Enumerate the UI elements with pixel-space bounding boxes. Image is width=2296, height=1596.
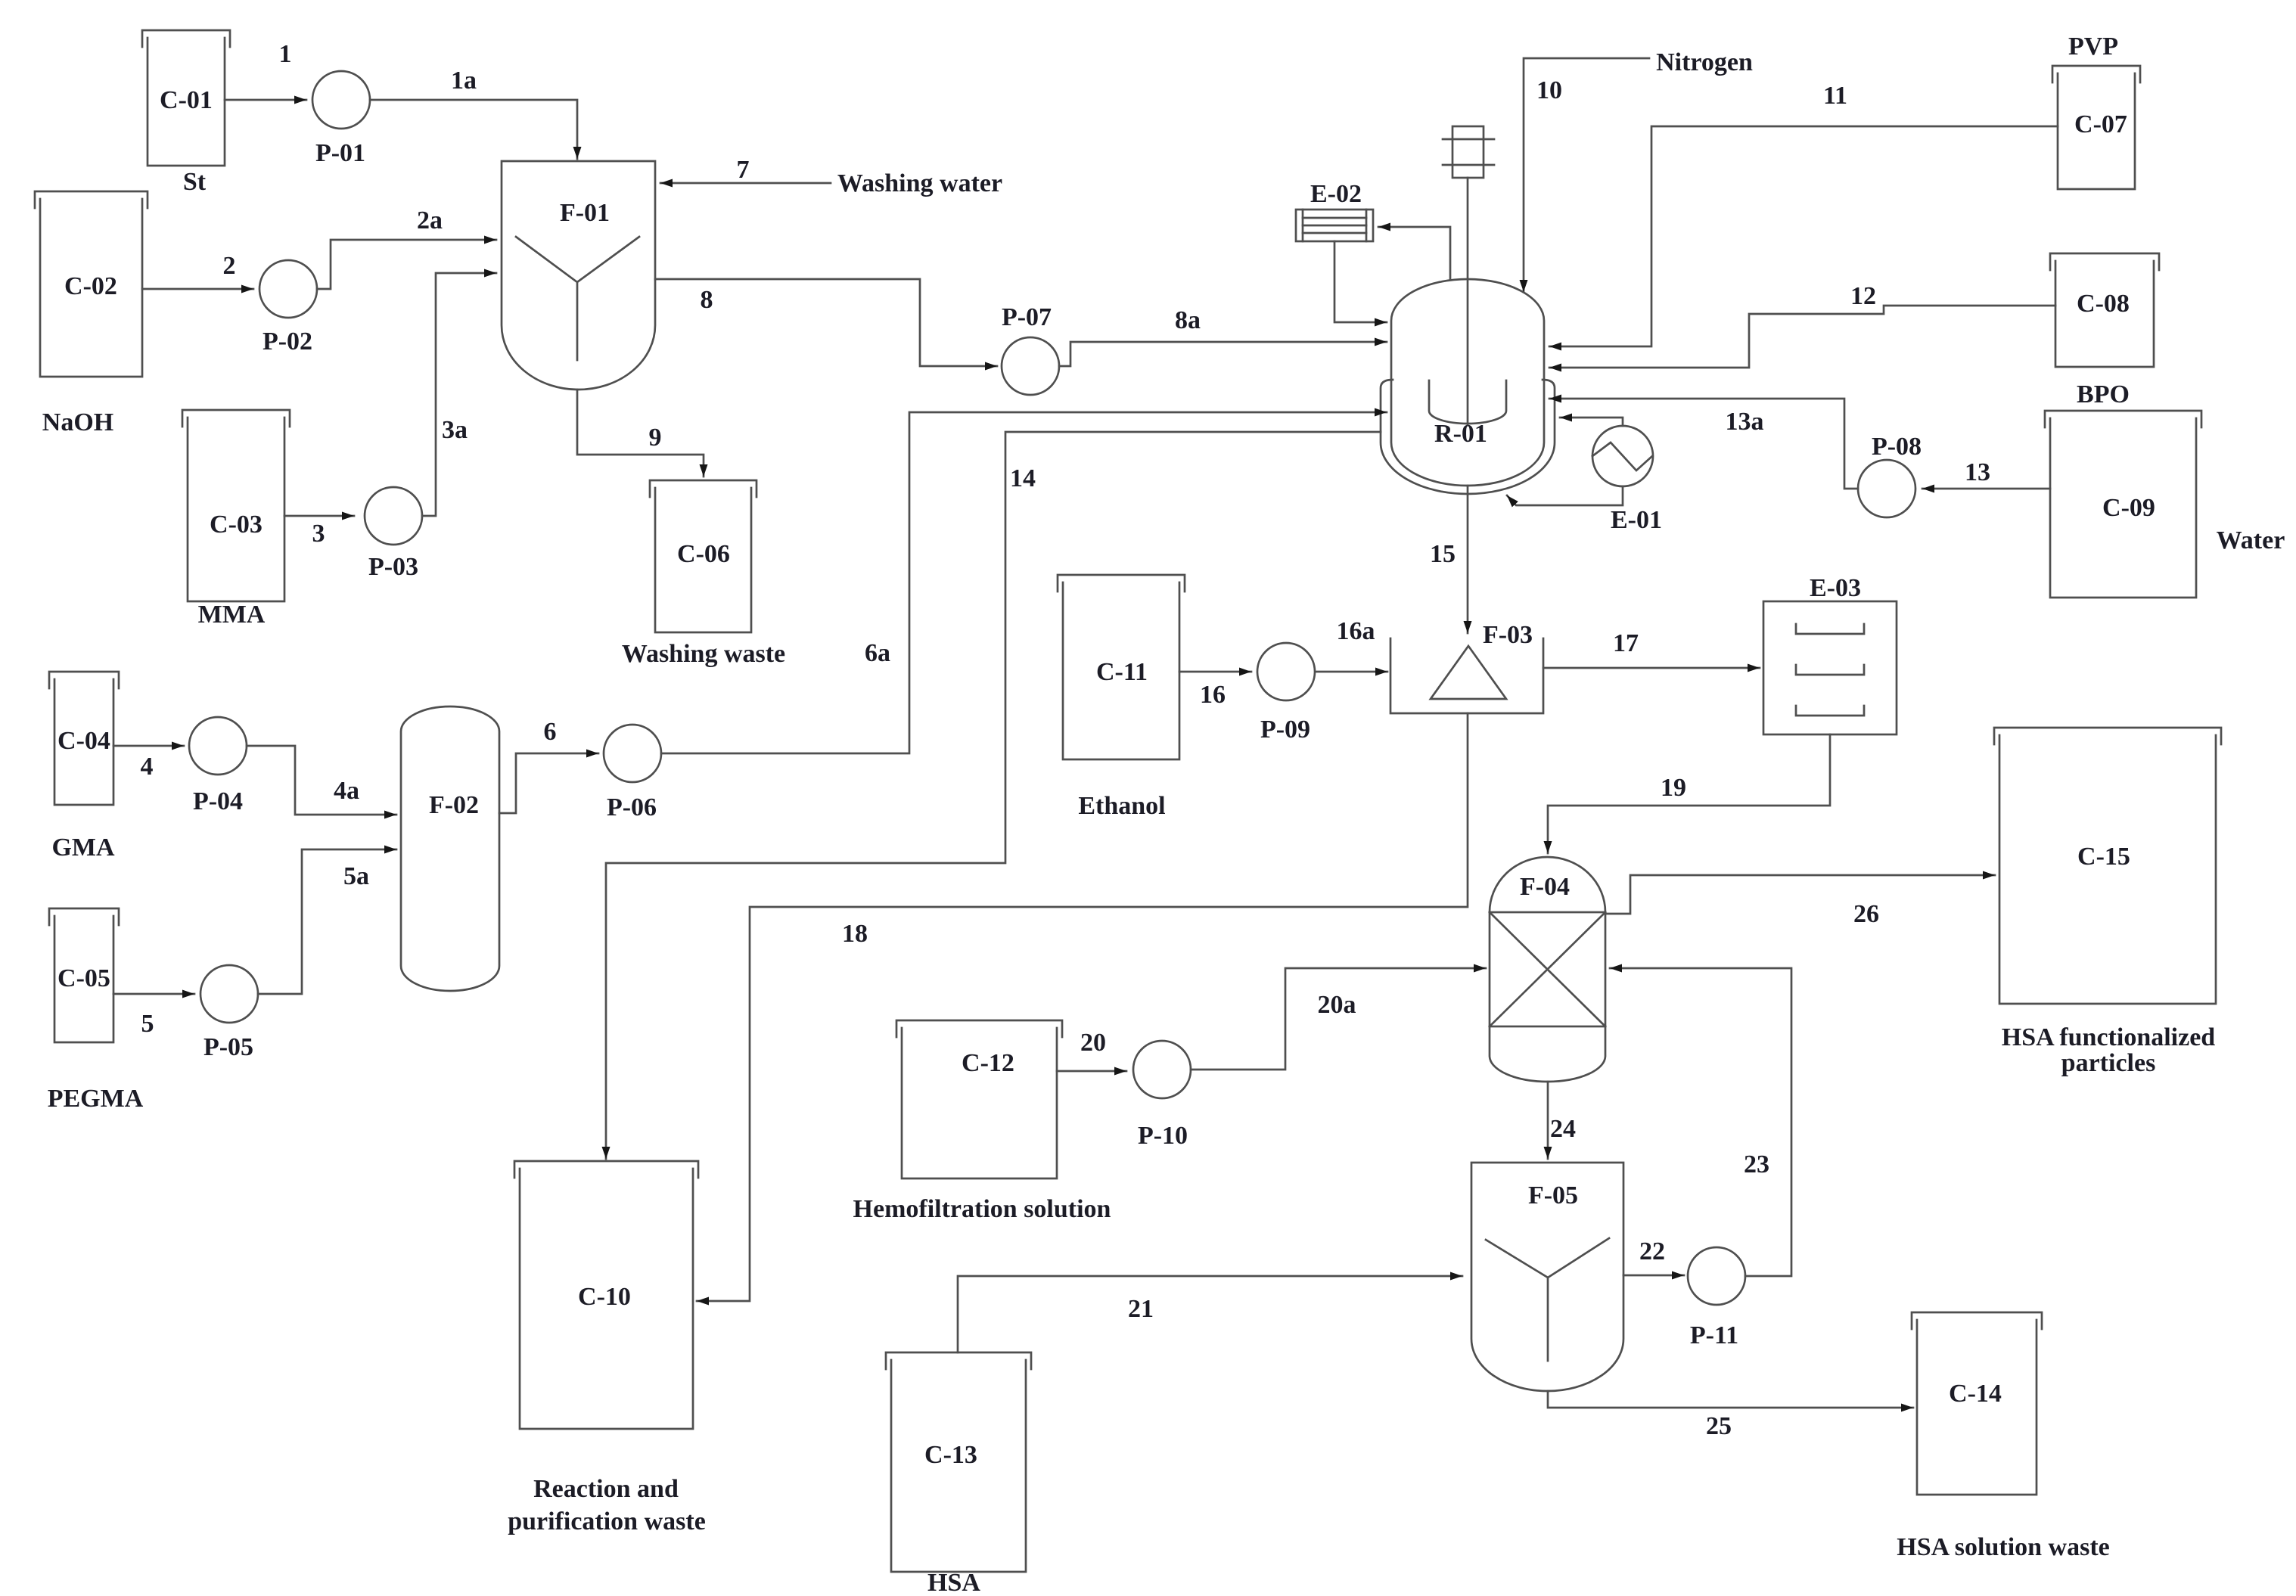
tank C-13 (886, 1352, 1031, 1572)
svg-text:6a: 6a (865, 639, 890, 667)
wire stream 16a (1316, 617, 1387, 672)
wire stream 21 (958, 1276, 1462, 1352)
svg-text:C-03: C-03 (210, 511, 263, 539)
wire stream 25 (1548, 1391, 1913, 1440)
svg-text:E-01: E-01 (1611, 506, 1662, 534)
vessel F-03 (1390, 621, 1543, 713)
svg-text:Nitrogen: Nitrogen (1656, 48, 1753, 76)
reactor R-01 shaft (1467, 178, 1469, 424)
svg-text:Hemofiltration solution: Hemofiltration solution (853, 1195, 1111, 1223)
svg-text:C-11: C-11 (1096, 658, 1148, 686)
svg-text:C-04: C-04 (57, 727, 110, 755)
tank C-11 (1058, 575, 1185, 759)
wire stream 20a (1191, 968, 1486, 1070)
svg-text:1: 1 (279, 40, 292, 68)
label PVP (2068, 33, 2118, 61)
tank C-08 (2050, 253, 2159, 367)
svg-text:12: 12 (1850, 282, 1876, 310)
svg-text:F-03: F-03 (1483, 621, 1533, 649)
svg-text:P-09: P-09 (1260, 716, 1310, 744)
svg-text:1a: 1a (451, 67, 477, 95)
wire E-01 return line (1507, 486, 1623, 505)
svg-text:HSA: HSA (927, 1569, 980, 1596)
svg-text:P-02: P-02 (263, 328, 312, 356)
svg-text:P-08: P-08 (1872, 433, 1922, 461)
reactor R-01 shell (1391, 279, 1544, 486)
svg-text:15: 15 (1430, 540, 1456, 568)
pump P-05 (200, 965, 258, 1061)
tank C-09 (2045, 411, 2201, 598)
wire E-02 vapor line (1378, 227, 1450, 280)
svg-text:23: 23 (1744, 1150, 1769, 1178)
label GMA (51, 834, 115, 862)
wire stream 23 (1610, 968, 1791, 1276)
pump P-08 (1858, 433, 1922, 517)
svg-text:P-05: P-05 (204, 1033, 253, 1061)
label Reaction and purification waste (508, 1475, 706, 1535)
label HSA functionalized particles (2002, 1023, 2216, 1077)
svg-text:5: 5 (141, 1010, 154, 1038)
svg-text:8a: 8a (1175, 306, 1201, 334)
pump P-04 (189, 717, 247, 815)
wire stream 26 (1605, 875, 1995, 928)
svg-text:18: 18 (842, 920, 868, 948)
wire stream 22 (1623, 1237, 1684, 1275)
wire stream 15 (1430, 486, 1468, 633)
svg-text:19: 19 (1661, 774, 1686, 802)
svg-text:17: 17 (1613, 629, 1639, 657)
wire stream 1 (225, 40, 306, 100)
wire stream 20 (1057, 1029, 1126, 1071)
svg-text:purification waste: purification waste (508, 1508, 706, 1535)
wire E-01 supply line (1560, 418, 1623, 426)
svg-text:20a: 20a (1318, 991, 1356, 1019)
tank C-10 (514, 1161, 698, 1429)
svg-text:22: 22 (1639, 1237, 1665, 1265)
svg-text:C-06: C-06 (677, 540, 730, 568)
svg-text:24: 24 (1550, 1115, 1576, 1143)
svg-text:C-14: C-14 (1949, 1380, 2002, 1408)
wire stream 24 (1548, 1082, 1576, 1159)
svg-text:PVP: PVP (2068, 33, 2118, 61)
svg-text:F-02: F-02 (429, 791, 479, 819)
wire stream 2 (142, 252, 253, 289)
wire stream 16 (1179, 672, 1251, 709)
wire stream 5 (113, 994, 194, 1038)
tank C-12 (896, 1020, 1062, 1178)
svg-text:21: 21 (1128, 1295, 1154, 1323)
tank C-03 (182, 410, 290, 601)
svg-text:MMA: MMA (198, 601, 266, 629)
label BPO (2077, 380, 2130, 408)
svg-text:BPO: BPO (2077, 380, 2130, 408)
svg-text:9: 9 (649, 424, 662, 452)
svg-text:GMA: GMA (51, 834, 115, 862)
wire stream 8a (1059, 306, 1387, 366)
pump P-09 (1257, 643, 1315, 744)
reactor R-01 agitator motor (1443, 126, 1494, 178)
svg-text:16a: 16a (1337, 617, 1375, 645)
svg-text:13: 13 (1965, 458, 1990, 486)
pump P-11 (1688, 1247, 1745, 1349)
label MMA (198, 601, 266, 629)
wire stream 11 (1549, 82, 2058, 346)
svg-text:7: 7 (737, 156, 750, 184)
svg-text:P-10: P-10 (1138, 1122, 1188, 1150)
svg-text:C-01: C-01 (160, 86, 213, 114)
svg-text:Washing water: Washing water (837, 169, 1002, 197)
svg-text:6: 6 (544, 718, 557, 746)
svg-text:P-01: P-01 (315, 139, 365, 167)
svg-text:C-10: C-10 (578, 1283, 631, 1311)
wire E-02 return line (1334, 241, 1387, 322)
label NaOH (42, 408, 113, 436)
svg-text:16: 16 (1200, 681, 1226, 709)
vessel F-02 (401, 706, 499, 991)
wire stream 4a (247, 746, 396, 815)
svg-text:F-05: F-05 (1528, 1181, 1578, 1209)
svg-text:C-02: C-02 (64, 272, 117, 300)
wire stream 3a (422, 273, 496, 516)
wire stream 13 (1922, 458, 2050, 489)
vessel F-05 (1471, 1163, 1623, 1391)
wire stream 7 (660, 156, 831, 184)
tank C-05 (49, 908, 119, 1042)
wire stream 6 (499, 718, 598, 813)
svg-text:3: 3 (312, 520, 325, 548)
pump P-06 (604, 725, 661, 821)
svg-text:Washing waste: Washing waste (622, 640, 785, 668)
svg-text:C-07: C-07 (2074, 110, 2127, 138)
tank C-06 (650, 480, 757, 632)
svg-text:5a: 5a (343, 862, 369, 890)
pump P-03 (365, 487, 422, 581)
svg-text:Ethanol: Ethanol (1078, 792, 1165, 820)
vessel F-04 (1490, 857, 1605, 1082)
wire stream 5a (258, 849, 396, 994)
svg-text:PEGMA: PEGMA (48, 1085, 144, 1113)
tank C-02 (35, 191, 148, 377)
svg-text:13a: 13a (1726, 408, 1764, 436)
wire stream 6a (661, 412, 1387, 753)
svg-text:P-07: P-07 (1002, 303, 1052, 331)
wire stream 2a (317, 206, 496, 289)
wire stream 9 (577, 390, 704, 477)
svg-text:Reaction and: Reaction and (533, 1475, 679, 1503)
svg-text:11: 11 (1823, 82, 1847, 110)
svg-text:C-15: C-15 (2077, 843, 2130, 871)
label Water (2217, 526, 2285, 554)
wire stream 10 (1524, 58, 1649, 292)
tank C-04 (49, 672, 119, 805)
label Washing waste (622, 640, 785, 668)
svg-text:26: 26 (1853, 900, 1879, 928)
svg-text:C-12: C-12 (962, 1049, 1014, 1077)
svg-text:P-06: P-06 (607, 793, 657, 821)
svg-text:HSA functionalized: HSA functionalized (2002, 1023, 2216, 1051)
svg-text:8: 8 (701, 286, 713, 314)
wire stream 3 (284, 516, 354, 548)
pump P-07 (1002, 303, 1059, 395)
svg-text:F-01: F-01 (560, 199, 610, 227)
wire stream 8 (655, 279, 997, 366)
wire stream 19 (1548, 734, 1830, 853)
svg-text:Water: Water (2217, 526, 2285, 554)
svg-text:P-04: P-04 (193, 787, 243, 815)
label Washing water (837, 169, 1002, 197)
svg-text:C-13: C-13 (924, 1441, 977, 1469)
svg-text:2: 2 (223, 252, 236, 280)
svg-text:NaOH: NaOH (42, 408, 113, 436)
pump P-02 (259, 260, 317, 356)
dryer E-03 (1763, 574, 1897, 734)
svg-text:C-08: C-08 (2077, 290, 2130, 318)
svg-text:P-11: P-11 (1690, 1321, 1738, 1349)
tank C-14 (1912, 1312, 2042, 1495)
svg-text:20: 20 (1080, 1029, 1106, 1057)
vessel F-01 (502, 161, 655, 390)
svg-text:particles: particles (2061, 1049, 2156, 1077)
svg-text:4a: 4a (334, 777, 359, 805)
svg-text:St: St (183, 168, 207, 196)
svg-text:2a: 2a (417, 206, 443, 234)
label HSA (927, 1569, 980, 1596)
label Nitrogen (1656, 48, 1753, 76)
wire stream 17 (1543, 629, 1760, 668)
pump P-10 (1133, 1041, 1191, 1150)
svg-text:E-03: E-03 (1810, 574, 1861, 602)
reactor R-01 impeller (1429, 380, 1506, 424)
svg-text:C-05: C-05 (57, 964, 110, 992)
wire stream 12 (1549, 282, 2055, 368)
pump P-01 (312, 71, 370, 167)
reactor R-01 jacket (1381, 380, 1555, 494)
svg-text:HSA solution waste: HSA solution waste (1897, 1533, 2110, 1561)
label Hemofiltration solution (853, 1195, 1111, 1223)
wire stream 1a (370, 67, 577, 159)
svg-text:F-04: F-04 (1520, 873, 1570, 901)
condenser E-02 (1296, 180, 1373, 241)
svg-text:14: 14 (1010, 464, 1036, 492)
tank C-01 (142, 30, 230, 166)
svg-text:25: 25 (1706, 1412, 1732, 1440)
svg-text:P-03: P-03 (368, 553, 418, 581)
label Ethanol (1078, 792, 1165, 820)
wire stream 18 (697, 713, 1468, 1301)
wire stream 4 (113, 746, 184, 781)
wire stream 13a (1549, 399, 1858, 489)
label HSA solution waste (1897, 1533, 2110, 1561)
svg-text:3a: 3a (442, 416, 468, 444)
svg-text:10: 10 (1536, 76, 1562, 104)
label PEGMA (48, 1085, 144, 1113)
svg-text:E-02: E-02 (1310, 180, 1362, 208)
label St (183, 168, 207, 196)
tank C-15 (1994, 728, 2221, 1004)
heat exchanger E-01 (1592, 426, 1662, 534)
wire stream 14 (606, 432, 1381, 1159)
svg-text:C-09: C-09 (2102, 494, 2155, 522)
svg-text:4: 4 (141, 753, 154, 781)
tank C-07 (2052, 66, 2140, 189)
